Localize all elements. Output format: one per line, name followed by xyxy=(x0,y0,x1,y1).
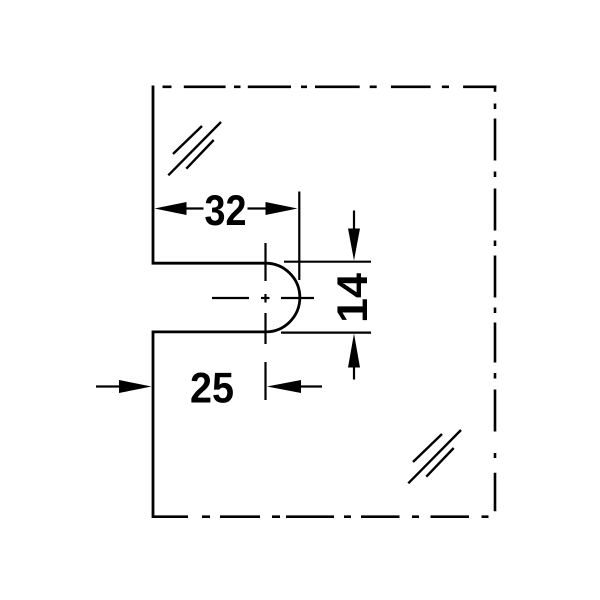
glass hatch mark bottom-right line 3 xyxy=(426,448,453,477)
dimension 14 bottom arrowhead (pointing up) xyxy=(348,334,360,368)
glass hatch mark top-left line 3 xyxy=(186,140,213,169)
extension line for 14 dimension bottom (horizontal at y=332.6) xyxy=(281,332,371,334)
dimension 14 top arrowhead (pointing down) xyxy=(348,229,360,261)
dimension 32 line right segment xyxy=(248,207,267,209)
glass hatch mark top-left line 2 xyxy=(168,122,221,175)
extension line for 32 dimension (vertical at x=299) xyxy=(298,192,300,281)
panel top boundary dash-dot line xyxy=(163,86,497,89)
panel bottom boundary dash-dot line xyxy=(153,515,489,518)
dimension 14 bottom shaft xyxy=(353,368,355,380)
glass hatch mark top-left line 1 xyxy=(173,126,202,154)
dimension 14 top shaft xyxy=(353,211,355,229)
panel right boundary dash-dot line xyxy=(494,86,497,512)
cutout centerline vertical segments xyxy=(264,243,266,281)
dimension 25 left arrowhead xyxy=(119,380,152,393)
svg-text:32: 32 xyxy=(205,187,247,235)
dimension 32 left arrowhead xyxy=(155,202,187,215)
glass panel outline with U-shaped hinge cutout xyxy=(153,86,300,519)
extension line for 14 dimension top (horizontal at y=261.7) xyxy=(284,261,371,263)
glass hatch mark bottom-right line 1 xyxy=(413,434,442,462)
dimension 25 right arrowhead (pointing left at centerline) xyxy=(267,380,301,393)
glass hatch mark bottom-right line 2 xyxy=(408,430,461,483)
dimension 25 right arrow shaft xyxy=(301,385,323,387)
dimension 32 right arrowhead xyxy=(266,202,298,215)
svg-text:14: 14 xyxy=(329,273,377,323)
cutout centerline horizontal segments xyxy=(212,297,249,299)
dimension 32 line left segment xyxy=(186,207,204,209)
svg-text:25: 25 xyxy=(190,365,234,413)
dimension 25 left arrow shaft (outside, pointing right at panel edge) xyxy=(96,385,120,387)
cutout center cross mark xyxy=(261,297,270,299)
